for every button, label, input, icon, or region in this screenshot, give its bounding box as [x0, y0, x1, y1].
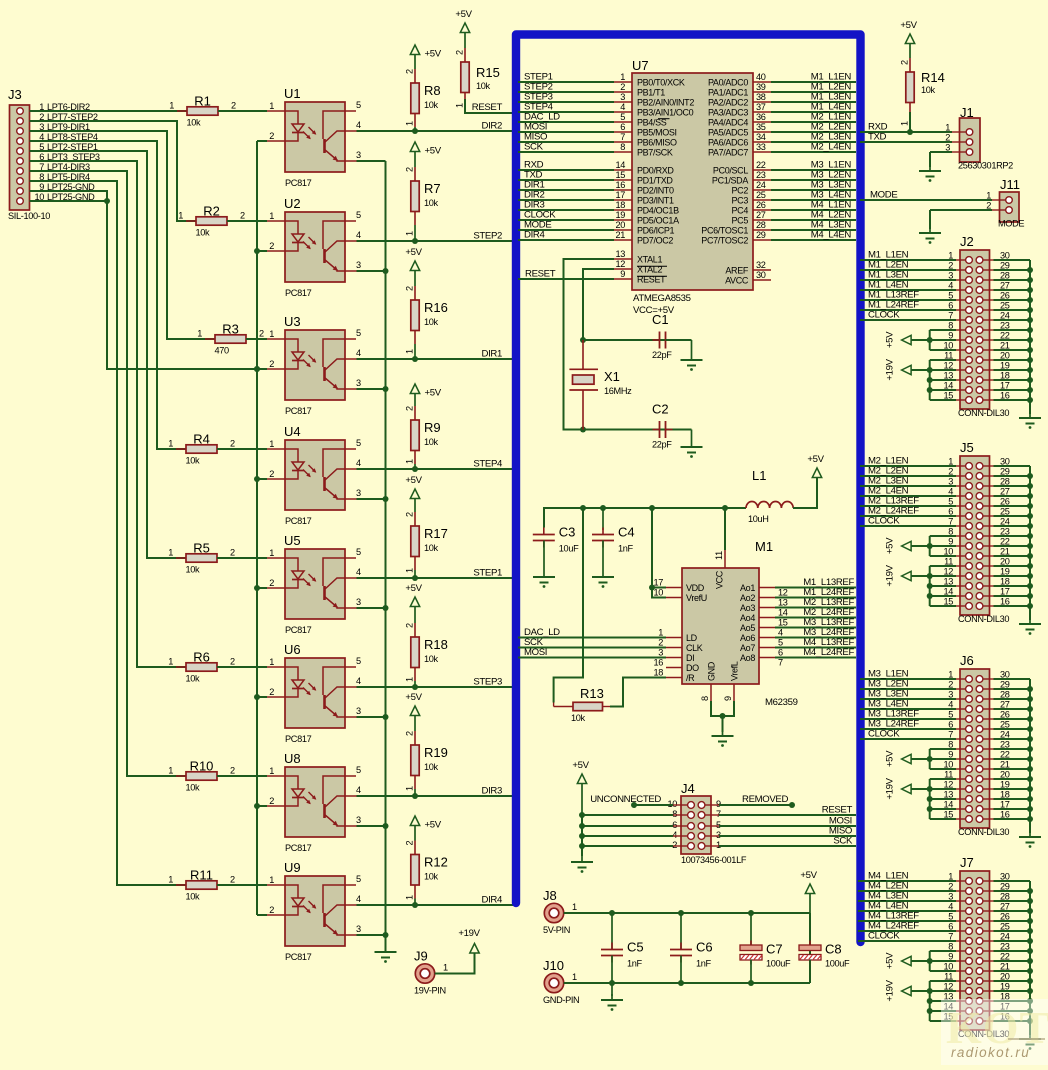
svg-text:PB7/SCK: PB7/SCK	[637, 148, 673, 158]
capacitor C6	[670, 940, 713, 969]
svg-text:2: 2	[269, 469, 274, 479]
svg-text:R15: R15	[476, 65, 500, 80]
svg-text:DIR4: DIR4	[524, 230, 545, 241]
svg-text:7: 7	[778, 658, 783, 668]
optocoupler U1 PC817	[267, 86, 361, 188]
svg-text:2: 2	[230, 657, 235, 667]
wire net M2_L2EN (J5)	[860, 475, 956, 477]
svg-text:9: 9	[723, 696, 733, 701]
wire net M2_L2EN (U7)	[771, 131, 856, 133]
svg-text:R8: R8	[424, 83, 441, 98]
svg-text:17: 17	[653, 578, 663, 588]
wire net LPT3_STEP3	[30, 161, 187, 667]
wire J7 right bus	[994, 881, 1034, 1035]
svg-text:R10: R10	[190, 759, 214, 774]
wire net CLOCK (J7)	[858, 940, 956, 942]
svg-text:4: 4	[356, 230, 361, 240]
svg-text:+5V: +5V	[885, 750, 896, 767]
svg-text:J10: J10	[543, 958, 564, 973]
svg-text:PD4/OC1B: PD4/OC1B	[637, 206, 679, 216]
svg-text:Ao7: Ao7	[740, 643, 755, 653]
svg-text:PC2: PC2	[732, 186, 749, 196]
svg-text:+5V: +5V	[425, 146, 442, 157]
wire R18 to row	[414, 681, 416, 687]
junction rail/VDD riser	[649, 505, 655, 511]
wire net M2_L24REF (J5)	[860, 515, 956, 517]
svg-text:R3: R3	[222, 322, 239, 337]
+5V feed J6	[885, 749, 956, 769]
junction cathode bus	[254, 248, 260, 254]
svg-text:PC817: PC817	[285, 734, 312, 744]
svg-text:Ao6: Ao6	[740, 633, 755, 643]
svg-text:5: 5	[356, 210, 361, 220]
optocoupler U3 PC817	[267, 314, 361, 416]
wire net M4_L24REF (J7)	[858, 930, 956, 932]
wire net STEP1 (U7)	[518, 81, 614, 83]
wire net M4_L24REF	[775, 657, 856, 659]
junction GND feed to cathode bus	[254, 366, 260, 372]
junction at R8	[412, 128, 418, 134]
svg-text:1: 1	[405, 895, 415, 900]
svg-text:10k: 10k	[196, 228, 211, 238]
svg-text:3: 3	[356, 150, 361, 160]
svg-text:1nF: 1nF	[696, 959, 712, 969]
ground symbol J11	[929, 227, 931, 233]
svg-text:DIR3: DIR3	[482, 786, 502, 797]
ground symbol C1	[691, 354, 693, 360]
resistor R19	[405, 731, 448, 791]
svg-text:10073456-001LF: 10073456-001LF	[681, 855, 747, 865]
svg-text:13: 13	[778, 598, 788, 608]
connector J4 10073456-001LF	[667, 781, 746, 865]
svg-text:R19: R19	[424, 745, 448, 760]
svg-text:TXD: TXD	[868, 132, 887, 143]
svg-text:PB2/AIN0/INT2: PB2/AIN0/INT2	[637, 98, 694, 108]
svg-text:PC0/SCL: PC0/SCL	[713, 166, 748, 176]
svg-text:2: 2	[269, 687, 274, 697]
svg-text:PA0/ADC0: PA0/ADC0	[708, 78, 748, 88]
wire R9 to row	[414, 464, 416, 469]
resistor R10	[168, 759, 235, 793]
wire GND rail (bottom)	[564, 982, 810, 984]
resistor R9	[405, 406, 441, 464]
svg-text:32: 32	[756, 260, 766, 270]
wire R3 to U3 pin1	[246, 338, 267, 340]
svg-text:16: 16	[615, 180, 625, 190]
junction rail/R13 riser	[580, 505, 586, 511]
svg-text:+5V: +5V	[405, 475, 422, 486]
svg-text:1: 1	[178, 211, 183, 221]
wire U pin2 stub row 915	[257, 914, 267, 916]
svg-text:Ao2: Ao2	[740, 593, 755, 603]
wire J4 left bus	[581, 815, 583, 856]
svg-text:2: 2	[269, 131, 274, 141]
svg-text:PB5/MOSI: PB5/MOSI	[637, 128, 677, 138]
optocoupler U4 PC817	[267, 424, 361, 526]
svg-text:CONN-DIL30: CONN-DIL30	[958, 827, 1009, 837]
svg-text:1: 1	[405, 121, 415, 126]
svg-text:+5V: +5V	[455, 9, 472, 20]
wire net M1_L24REF	[775, 597, 856, 599]
svg-text:R9: R9	[424, 420, 441, 435]
wire R11 to opto pin1	[217, 884, 267, 886]
capacitor C4	[592, 525, 635, 554]
wire U pin2 stub row 588	[257, 587, 267, 589]
svg-text:PC817: PC817	[285, 406, 312, 416]
svg-text:100uF: 100uF	[766, 959, 791, 969]
wire net MODE (U7)	[518, 229, 614, 231]
junction at R12	[412, 902, 418, 908]
ground symbol J5	[1029, 618, 1031, 624]
svg-text:38: 38	[756, 92, 766, 102]
svg-text:SCK: SCK	[524, 142, 544, 153]
svg-text:2: 2	[230, 548, 235, 558]
wire net M4_L3EN (U7)	[771, 229, 856, 231]
wire U pin2 stub row 479	[257, 478, 267, 480]
svg-text:22pF: 22pF	[652, 350, 672, 360]
wire net M3_L2EN (J6)	[860, 688, 956, 690]
wire net M2_L4EN (U7)	[771, 151, 856, 153]
svg-text:PC7/TOSC2: PC7/TOSC2	[701, 236, 748, 246]
svg-text:Ao3: Ao3	[740, 603, 755, 613]
ground symbol M1	[722, 730, 724, 736]
watermark radiokot.ru	[941, 999, 1048, 1065]
svg-text:1: 1	[168, 439, 173, 449]
junction at R17	[412, 575, 418, 581]
svg-text:1: 1	[168, 548, 173, 558]
svg-text:10k: 10k	[571, 713, 586, 723]
svg-text:1: 1	[197, 329, 202, 339]
svg-text:PC817: PC817	[285, 178, 312, 188]
svg-text:J7: J7	[960, 855, 974, 870]
wire U pin3 stub row 608	[357, 607, 386, 609]
svg-text:U1: U1	[284, 86, 301, 101]
wire net M1_L3EN (J2)	[860, 279, 956, 281]
wire net M3_L3EN (U7)	[771, 189, 856, 191]
svg-text:10k: 10k	[186, 565, 201, 575]
svg-text:5: 5	[778, 638, 783, 648]
svg-text:2: 2	[405, 406, 415, 411]
svg-text:CLOCK: CLOCK	[868, 931, 900, 942]
svg-text:M2_L4EN: M2_L4EN	[811, 142, 852, 153]
wire VCC riser	[724, 508, 726, 550]
wire U pin2 stub row 806	[257, 805, 267, 807]
svg-text:2: 2	[269, 359, 274, 369]
svg-text:1nF: 1nF	[618, 544, 634, 554]
wire net M2_L13REF (J5)	[860, 505, 956, 507]
svg-text:/R: /R	[686, 673, 695, 683]
svg-text:R11: R11	[190, 868, 213, 883]
svg-text:23: 23	[756, 170, 766, 180]
wire net M4_L1EN (J7)	[858, 880, 956, 882]
svg-text:+5V: +5V	[885, 952, 896, 969]
svg-text:U2: U2	[284, 196, 301, 211]
junction at R16	[412, 356, 418, 362]
svg-text:3: 3	[356, 924, 361, 934]
svg-text:1: 1	[269, 548, 274, 558]
svg-text:MODE: MODE	[870, 190, 897, 201]
wire net STEP2 (opto output)	[357, 240, 519, 242]
svg-text:PD1/TXD: PD1/TXD	[637, 176, 673, 186]
wire J4 left pin row	[582, 825, 673, 827]
svg-text:5: 5	[620, 112, 625, 122]
svg-text:PD7/OC2: PD7/OC2	[637, 236, 673, 246]
svg-text:28: 28	[756, 220, 766, 230]
svg-text:4: 4	[620, 102, 625, 112]
wire net MISO (J4)	[719, 835, 856, 837]
svg-text:DIR4: DIR4	[482, 895, 503, 906]
wire net DIR1 (U7)	[518, 189, 614, 191]
svg-text:2: 2	[405, 623, 415, 628]
wire R19 to row	[414, 789, 416, 796]
svg-text:+5V: +5V	[885, 537, 896, 554]
svg-text:3: 3	[356, 260, 361, 270]
svg-text:+5V: +5V	[405, 583, 422, 594]
wire net DIR2 (U7)	[518, 199, 614, 201]
svg-text:10k: 10k	[424, 317, 439, 327]
wire R6 to opto pin1	[217, 666, 267, 668]
wire net LPT5-DIR4	[30, 181, 187, 885]
svg-text:ATMEGA8535: ATMEGA8535	[633, 293, 691, 304]
+5V power arrow for R12	[410, 816, 441, 841]
wire R2 to U2 pin1	[227, 220, 267, 222]
svg-text:PA7/ADC7: PA7/ADC7	[708, 148, 748, 158]
svg-text:GND-PIN: GND-PIN	[543, 995, 579, 1005]
svg-text:R18: R18	[424, 637, 448, 652]
svg-text:2: 2	[945, 133, 950, 143]
wire net MOSI (U7)	[518, 131, 614, 133]
svg-text:J5: J5	[960, 440, 974, 455]
svg-text:3: 3	[356, 597, 361, 607]
ground symbol J6	[1029, 831, 1031, 837]
wire net MISO (U7)	[518, 141, 614, 143]
svg-text:1: 1	[658, 628, 663, 638]
connector J7 CONN-DIL30	[943, 855, 1009, 1039]
junction emitter bus	[383, 714, 389, 720]
wire net MOSI (M1)	[518, 657, 666, 659]
svg-text:2: 2	[269, 905, 274, 915]
svg-text:GND: GND	[707, 661, 717, 681]
svg-text:13: 13	[615, 249, 625, 259]
wire J6 right bus	[994, 679, 1034, 833]
svg-text:+5V: +5V	[405, 247, 422, 258]
resistor R6	[168, 650, 235, 684]
svg-text:19V-PIN: 19V-PIN	[414, 986, 446, 996]
junction at R7	[412, 238, 418, 244]
wire net M3_L1EN (J6)	[860, 678, 956, 680]
svg-text:2: 2	[230, 875, 235, 885]
svg-text:3: 3	[356, 815, 361, 825]
svg-text:37: 37	[756, 102, 766, 112]
wire net LPT9-DIR1	[30, 131, 216, 339]
svg-text:2: 2	[986, 201, 991, 211]
junction cathode bus	[254, 366, 260, 372]
wire C5 bottom	[611, 956, 613, 984]
junction J4 bus	[579, 833, 585, 839]
svg-text:CONN-DIL30: CONN-DIL30	[958, 614, 1009, 624]
svg-text:U3: U3	[284, 314, 301, 329]
wire C6 bottom	[680, 956, 682, 984]
svg-text:R7: R7	[424, 181, 441, 196]
svg-text:2: 2	[230, 439, 235, 449]
svg-text:1: 1	[269, 875, 274, 885]
svg-text:PC817: PC817	[285, 952, 312, 962]
svg-text:U7: U7	[632, 58, 649, 73]
svg-text:16MHz: 16MHz	[604, 386, 632, 396]
wire net M1_L4EN (J2)	[860, 289, 956, 291]
svg-text:2: 2	[230, 766, 235, 776]
wire net M2_L4EN (J5)	[860, 495, 956, 497]
svg-text:6: 6	[778, 648, 783, 658]
svg-text:1: 1	[405, 568, 415, 573]
capacitor C7 (polarized)	[740, 941, 791, 969]
svg-text:1: 1	[168, 875, 173, 885]
svg-text:1: 1	[405, 231, 415, 236]
wire XTAL2 net	[583, 269, 692, 340]
svg-text:1: 1	[405, 786, 415, 791]
svg-text:1: 1	[405, 677, 415, 682]
ground symbol for optocoupler emitters	[385, 946, 387, 952]
+5V arrow for rail	[793, 454, 825, 508]
wire net M1_L24REF (J2)	[860, 309, 956, 311]
svg-text:2: 2	[620, 82, 625, 92]
wire net M2_L3EN (U7)	[771, 141, 856, 143]
svg-text:2: 2	[240, 211, 245, 221]
wire net RXD (to J1)	[860, 131, 952, 133]
svg-text:4: 4	[356, 120, 361, 130]
svg-text:Ao8: Ao8	[740, 653, 755, 663]
svg-text:10uH: 10uH	[748, 514, 769, 524]
svg-text:PB3/AIN1/OC0: PB3/AIN1/OC0	[637, 108, 694, 118]
resistor R4	[168, 432, 235, 466]
junction emitter bus	[383, 605, 389, 611]
svg-text:5V-PIN: 5V-PIN	[543, 925, 570, 935]
svg-text:+19V: +19V	[885, 564, 896, 586]
svg-text:5: 5	[356, 656, 361, 666]
wire net TXD (to J1)	[860, 141, 952, 143]
wire R12 to row	[414, 899, 416, 906]
svg-text:1: 1	[269, 211, 274, 221]
svg-text:4: 4	[356, 567, 361, 577]
svg-text:10: 10	[653, 588, 663, 598]
svg-text:39: 39	[756, 82, 766, 92]
svg-text:3: 3	[945, 143, 950, 153]
svg-text:L1: L1	[752, 468, 766, 483]
svg-text:+5V: +5V	[405, 692, 422, 703]
+5V feed J2	[885, 330, 956, 350]
svg-text:C7: C7	[766, 942, 783, 957]
junction emitter bus	[383, 496, 389, 502]
svg-text:8: 8	[620, 142, 625, 152]
wire VDD/VrefU to +5V rail	[652, 508, 666, 598]
svg-text:1: 1	[269, 766, 274, 776]
svg-text:4: 4	[356, 785, 361, 795]
junction J4 bus	[579, 823, 585, 829]
svg-text:10k: 10k	[186, 456, 201, 466]
svg-text:radiokot.ru: radiokot.ru	[951, 1045, 1030, 1060]
wire U pin2 stub row 141	[257, 140, 267, 142]
wire U pin3 stub row 499	[357, 498, 386, 500]
svg-text:470: 470	[215, 346, 230, 356]
wire R14 to RXD	[909, 112, 911, 132]
wire M1 ground	[711, 701, 734, 716]
wire U pin3 stub row 826	[357, 825, 386, 827]
wire net RESET (J4)	[719, 814, 856, 816]
svg-text:27: 27	[756, 210, 766, 220]
svg-text:RESET: RESET	[525, 269, 556, 280]
svg-text:PB0/T0/XCK: PB0/T0/XCK	[637, 78, 685, 88]
inductor L1 10uH	[746, 468, 793, 524]
wire C6 top	[680, 913, 682, 950]
svg-text:+5V: +5V	[885, 331, 896, 348]
svg-text:PA4/ADC4: PA4/ADC4	[708, 118, 748, 128]
svg-text:10k: 10k	[187, 118, 202, 128]
+5V feed J7	[885, 951, 956, 971]
svg-text:1: 1	[620, 72, 625, 82]
wire net LPT8-STEP4	[30, 141, 187, 449]
svg-text:3: 3	[356, 488, 361, 498]
wire R1 to U1 pin1	[218, 110, 267, 112]
svg-text:10k: 10k	[186, 892, 201, 902]
svg-text:Ao5: Ao5	[740, 623, 755, 633]
junction XTAL2/C1/crystal	[580, 337, 586, 343]
svg-text:17: 17	[615, 190, 625, 200]
svg-text:15: 15	[778, 618, 788, 628]
svg-text:5: 5	[356, 874, 361, 884]
wire J1 pin3 to ground	[930, 151, 952, 153]
svg-text:3: 3	[658, 648, 663, 658]
svg-text:+5V: +5V	[900, 20, 917, 31]
wire net M1_L3EN (U7)	[771, 101, 856, 103]
wire C8 riser right	[809, 913, 811, 983]
wire C3 to ground	[543, 541, 545, 572]
svg-text:J1: J1	[960, 105, 974, 120]
svg-text:MODE: MODE	[998, 219, 1024, 229]
svg-text:7: 7	[620, 132, 625, 142]
wire net LPT4-DIR3	[30, 171, 187, 776]
svg-text:1: 1	[986, 191, 991, 201]
wire net M3_L24REF (J6)	[860, 728, 956, 730]
svg-text:3: 3	[620, 92, 625, 102]
svg-text:2: 2	[405, 512, 415, 517]
svg-text:PC817: PC817	[285, 843, 312, 853]
svg-text:DIR2: DIR2	[482, 121, 502, 132]
svg-text:PA2/ADC2: PA2/ADC2	[708, 98, 748, 108]
+5V arrow bottom rail	[800, 870, 817, 913]
junction M1 ground	[720, 713, 726, 719]
svg-text:1: 1	[269, 101, 274, 111]
wire net M4_L4EN (U7)	[771, 239, 856, 241]
connector J9 pin pad	[414, 949, 448, 996]
svg-text:19: 19	[615, 210, 625, 220]
svg-text:25: 25	[756, 190, 766, 200]
wire +5V riser to R13	[554, 508, 583, 703]
svg-text:C1: C1	[652, 312, 669, 327]
svg-text:AVCC: AVCC	[725, 276, 749, 286]
resistor R3	[197, 322, 264, 356]
svg-text:10k: 10k	[424, 654, 439, 664]
svg-text:35: 35	[756, 122, 766, 132]
svg-text:12: 12	[778, 588, 788, 598]
svg-text:J8: J8	[543, 888, 557, 903]
wire net LPT25-GND (J3 pin9)	[30, 191, 258, 369]
svg-text:+5V: +5V	[425, 49, 442, 60]
+5V power arrow for R19	[405, 692, 422, 731]
svg-text:SIL-100-10: SIL-100-10	[8, 211, 50, 221]
svg-text:STEP3: STEP3	[473, 677, 502, 688]
wire U pin3 stub row 389	[357, 388, 386, 390]
wire net M4_L1EN (U7)	[771, 209, 856, 211]
